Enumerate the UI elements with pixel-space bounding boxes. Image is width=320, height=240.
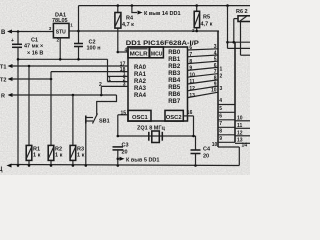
svg-text:RB2: RB2 (168, 64, 181, 70)
svg-text:6: 6 (219, 114, 222, 120)
MCLR box (128, 47, 149, 58)
capacitor C3 20 (113, 143, 129, 166)
svg-text:15: 15 (121, 110, 127, 116)
svg-text:2: 2 (99, 82, 102, 88)
svg-text:5: 5 (219, 106, 222, 112)
svg-text:Т1: Т1 (0, 65, 6, 71)
svg-text:3: 3 (220, 86, 223, 92)
svg-text:9: 9 (214, 82, 217, 88)
svg-text:MCLR: MCLR (130, 51, 149, 57)
wire ground rail riser to bundle (238, 147, 240, 166)
svg-text:R6 2: R6 2 (236, 9, 248, 15)
svg-text:RA3: RA3 (134, 86, 147, 92)
svg-text:10: 10 (211, 88, 217, 94)
svg-text:4: 4 (125, 48, 128, 54)
+5V top rail (79, 4, 251, 7)
svg-text:SB1: SB1 (99, 119, 110, 125)
svg-text:13: 13 (189, 93, 195, 99)
svg-text:7: 7 (219, 121, 222, 127)
arrow to pin 5 DD1 (117, 157, 160, 164)
svg-text:4: 4 (214, 50, 217, 56)
svg-text:Т2: Т2 (0, 78, 6, 84)
svg-text:4: 4 (219, 98, 222, 104)
svg-text:RB4: RB4 (168, 78, 181, 84)
svg-text:6: 6 (189, 45, 192, 51)
svg-text:8: 8 (214, 75, 217, 81)
node ts (bottom left arrow) (0, 164, 12, 174)
svg-text:R4: R4 (126, 16, 134, 22)
bundle rungs B to edge (235, 121, 250, 144)
svg-text:1 к: 1 к (77, 153, 85, 159)
capacitor C1 47uF 16V (11, 32, 43, 60)
svg-text:10: 10 (189, 72, 195, 78)
svg-text:RA4: RA4 (134, 93, 147, 99)
node DA1 out / C2 vertical (77, 6, 80, 44)
capacitor C2 100n (74, 40, 101, 60)
svg-text:12: 12 (189, 86, 195, 92)
wire pin 3 stub (99, 82, 128, 95)
svg-text:C4: C4 (203, 147, 211, 153)
svg-text:B: B (1, 30, 6, 36)
svg-text:3: 3 (214, 44, 217, 50)
IC DD1 box (128, 47, 188, 121)
ground rail bottom (11, 164, 239, 167)
voltage regulator DA1 78L05 (49, 13, 74, 43)
arrow to pin 14 DD1 (132, 6, 181, 17)
svg-text:MCU: MCU (151, 51, 163, 57)
wire C1 ground drop (17, 59, 19, 165)
bundle A lower numbers 4-10 (212, 98, 223, 148)
resistor R6 (cut at edge) (234, 9, 252, 42)
svg-text:× 16 В: × 16 В (27, 51, 43, 57)
wire DA1 pin1 output (69, 30, 79, 32)
svg-text:RB3: RB3 (168, 71, 181, 77)
svg-text:14: 14 (242, 143, 248, 149)
pin 15 stub OSC1 (118, 110, 129, 136)
svg-text:20: 20 (122, 150, 128, 156)
node B (input supply, left arrow) (1, 30, 53, 37)
svg-text:11: 11 (237, 123, 243, 129)
svg-text:RB7: RB7 (168, 99, 181, 105)
wire gnd drop to pin 1 (108, 59, 129, 83)
svg-text:1 к: 1 к (55, 153, 63, 159)
svg-text:C3: C3 (122, 143, 129, 149)
+5V mid row (DA1 out to display) (79, 30, 220, 32)
svg-text:+: + (11, 38, 14, 44)
ground row wire (17, 58, 108, 61)
svg-text:4,7 к: 4,7 к (201, 22, 213, 28)
resistor R1 1k (26, 65, 40, 166)
pin 16 stub OSC2 (183, 110, 193, 136)
svg-text:16: 16 (187, 110, 193, 116)
svg-text:47 мк ×: 47 мк × (24, 44, 43, 50)
svg-text:100 н: 100 н (87, 46, 101, 52)
svg-text:RB0: RB0 (168, 50, 181, 56)
svg-text:2: 2 (220, 73, 223, 79)
svg-text:1: 1 (220, 66, 223, 72)
crystal ZQ1 8MHz (117, 126, 196, 143)
svg-text:7: 7 (189, 52, 192, 58)
wire T2 jog to pin 18 (51, 67, 129, 79)
svg-text:7: 7 (214, 69, 217, 75)
svg-text:DD1 PIC16F628A-I/P: DD1 PIC16F628A-I/P (126, 40, 199, 47)
bundle line A (217, 31, 219, 147)
svg-text:9: 9 (219, 136, 222, 142)
IC left labels RA0-RA4 (134, 65, 147, 99)
svg-text:RB5: RB5 (168, 85, 181, 91)
bundle B numbers 10-14 (237, 115, 247, 148)
resistor R2 1k (48, 79, 62, 166)
svg-text:8: 8 (189, 59, 192, 65)
bundle wire numbers 3-10 (211, 44, 217, 93)
svg-text:STU: STU (56, 30, 66, 36)
OSC1 box (128, 110, 151, 121)
wire from rail down right (226, 6, 250, 56)
svg-text:RA2: RA2 (134, 79, 147, 85)
bundle line B (234, 42, 236, 142)
connector side numbers 1,2 (220, 66, 223, 92)
wire R4 to MCLR (pin 4) (117, 28, 129, 53)
wire pin 2 stub (108, 77, 129, 83)
svg-text:20: 20 (203, 154, 209, 160)
resistor R5 4.7k (192, 6, 213, 33)
svg-text:RA1: RA1 (134, 72, 147, 78)
resistor R3 1k (70, 95, 84, 166)
capacitor C4 20 (191, 136, 211, 166)
svg-text:R: R (1, 94, 5, 100)
MCU box (150, 47, 164, 58)
node T2 (left arrow) (0, 77, 52, 84)
svg-text:4,7 к: 4,7 к (122, 22, 134, 28)
svg-text:RB1: RB1 (168, 57, 181, 63)
resistor R4 4.7k (115, 6, 134, 29)
wire DA1 pin2 ground (59, 38, 61, 60)
svg-text:9: 9 (189, 66, 192, 72)
svg-text:8: 8 (219, 129, 222, 135)
svg-text:RA0: RA0 (134, 65, 147, 71)
svg-text:11: 11 (189, 79, 195, 85)
OSC2 box (165, 110, 183, 121)
svg-text:R5: R5 (203, 15, 210, 21)
node T1 (left arrow) to pin 17 (0, 61, 129, 70)
node R (left arrow) to pin 3 (1, 93, 117, 100)
IC right wires RB0-RB7 to bundle (188, 49, 218, 98)
svg-text:12: 12 (237, 130, 243, 136)
svg-text:10: 10 (237, 115, 243, 121)
svg-text:К выв 5 DD1: К выв 5 DD1 (126, 157, 159, 163)
svg-text:5: 5 (214, 57, 217, 63)
bundle rungs A to B (218, 105, 239, 148)
pin numbers 6-13 (189, 45, 195, 99)
svg-text:1 к: 1 к (33, 153, 41, 159)
svg-text:10: 10 (212, 142, 218, 148)
svg-text:К выв 14 DD1: К выв 14 DD1 (144, 11, 181, 17)
svg-text:RB6: RB6 (168, 92, 181, 98)
switch SB1 (86, 95, 117, 166)
IC right labels RB0-RB7 (168, 50, 181, 105)
svg-text:6: 6 (214, 63, 217, 69)
svg-text:OSC1: OSC1 (132, 115, 149, 121)
svg-text:OSC2: OSC2 (166, 115, 182, 121)
svg-text:3: 3 (123, 82, 126, 88)
